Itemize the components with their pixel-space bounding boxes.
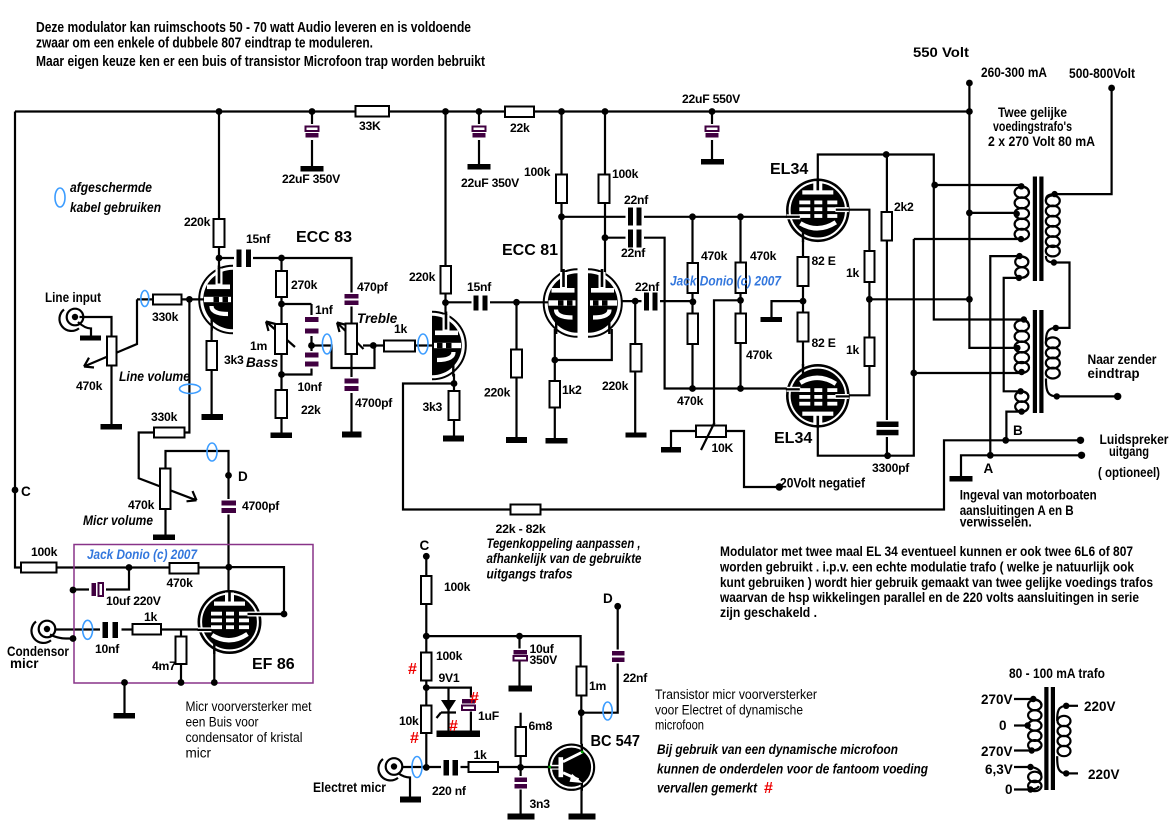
capacitor 470pf xyxy=(342,280,389,307)
tube EL34 top xyxy=(786,178,850,242)
wire 22uF cap 2 branch xyxy=(478,112,480,165)
capacitor 1nf xyxy=(303,303,334,336)
triode ECC83 half 1 xyxy=(199,266,233,334)
ground 4700pf treble xyxy=(342,432,362,438)
svg-text:Twee gelijke: Twee gelijke xyxy=(998,105,1067,120)
wire EL34 cathode 82E chain xyxy=(802,241,804,366)
ground 220k 22nf3 xyxy=(626,433,647,438)
svg-text:550 Volt: 550 Volt xyxy=(913,45,970,60)
svg-text:C: C xyxy=(420,538,430,553)
wire line volume wiper arm xyxy=(84,299,137,367)
wire condensor micr input to EF86 grid xyxy=(55,628,200,630)
ground zener and 1uF shared xyxy=(437,731,481,738)
junction dots group 6 EF86 xyxy=(70,472,288,686)
svg-text:Deze modulator kan ruimschoots: Deze modulator kan ruimschoots 50 - 70 w… xyxy=(36,20,471,36)
svg-text:D: D xyxy=(603,591,613,606)
svg-text:Electret micr: Electret micr xyxy=(313,780,387,795)
wire EL34 bottom anode run xyxy=(818,239,914,456)
ground 10uf 350V xyxy=(509,686,533,692)
svg-text:15nf: 15nf xyxy=(467,280,492,294)
ground 3k3 triode1 xyxy=(202,414,224,420)
ground 22uF 350V 1 xyxy=(301,166,324,172)
capacitor 15nf coupling 1 xyxy=(234,232,271,269)
svg-text:#: # xyxy=(449,718,458,735)
capacitor 22uF 350V 1 electrolytic xyxy=(282,124,341,186)
svg-text:BC 547: BC 547 xyxy=(591,733,641,750)
wire treble wiper xyxy=(337,323,373,350)
zener diode 9V1 xyxy=(437,671,460,718)
junction dots group 7 BC547 xyxy=(423,553,621,771)
wire 220k anode column triode 2 xyxy=(444,112,446,317)
svg-text:2 x 270 Volt 80 mA: 2 x 270 Volt 80 mA xyxy=(988,134,1095,149)
wire T1 primary top feed xyxy=(935,184,1022,186)
transformer T2 core xyxy=(1033,310,1037,413)
purple box EF86 stage xyxy=(74,545,313,684)
resistor 470k EF86 anode to grid2 xyxy=(170,563,199,574)
transformer T1 core xyxy=(1033,177,1037,282)
svg-text:2k2: 2k2 xyxy=(894,200,914,214)
resistor 470k upper left xyxy=(688,263,699,293)
ground 22uF 550V xyxy=(701,159,724,165)
svg-text:330k: 330k xyxy=(152,310,179,324)
shield ellipse 3 micr line xyxy=(180,384,201,393)
wire EF86 cathode to box rail xyxy=(213,648,215,683)
transformer T2 primary winding xyxy=(1015,320,1029,373)
svg-text:470k: 470k xyxy=(128,498,155,512)
wire junction down to 330k 2 xyxy=(139,299,197,501)
resistor 2k2 xyxy=(882,212,893,241)
svg-text:350V: 350V xyxy=(530,653,559,667)
svg-text:100k: 100k xyxy=(444,580,471,594)
resistor 220k anode triode2 xyxy=(441,266,452,294)
capacitor 10nf bass xyxy=(298,351,323,394)
svg-text:Naar zender: Naar zender xyxy=(1088,352,1158,367)
svg-text:20Volt negatief: 20Volt negatief xyxy=(780,476,865,491)
transformer T1 small winding xyxy=(1015,256,1028,278)
wire trafo3 primary lead 270V bottom xyxy=(1014,749,1032,751)
wire trafo3 primary lead 270V top xyxy=(1014,698,1033,700)
wire BC547 emitter ground xyxy=(580,790,582,814)
resistor 470k lower left xyxy=(688,314,699,345)
tube EF86 xyxy=(198,590,285,654)
wire 15nf 2 coupling to ECC81 grid xyxy=(446,301,517,303)
ground line volume pot xyxy=(101,424,123,430)
svg-text:22uF 350V: 22uF 350V xyxy=(282,172,341,186)
wire trafo3 secondary lead 220V bottom xyxy=(1066,772,1078,774)
svg-text:3300pf: 3300pf xyxy=(872,461,910,475)
svg-text:micr: micr xyxy=(186,746,212,761)
wire 4m7 column xyxy=(180,630,182,682)
resistor 330k grid 1 xyxy=(153,295,182,305)
resistor 220k anode triode1 xyxy=(214,219,225,247)
svg-text:220k: 220k xyxy=(409,270,436,284)
svg-text:470k: 470k xyxy=(677,394,704,408)
svg-text:vervallen gemerkt: vervallen gemerkt xyxy=(657,781,757,796)
svg-text:3k3: 3k3 xyxy=(423,400,443,414)
svg-text:ECC 83: ECC 83 xyxy=(296,229,352,246)
ground EF86 box xyxy=(114,713,136,719)
svg-text:uitgangs trafos: uitgangs trafos xyxy=(487,567,573,582)
resistor 330k to micr volume xyxy=(154,428,185,438)
svg-text:Bass: Bass xyxy=(246,355,279,370)
svg-text:afgeschermde: afgeschermde xyxy=(70,180,152,195)
shield ellipse 7 condensor micr xyxy=(83,620,93,639)
svg-text:22uF 350V: 22uF 350V xyxy=(461,176,520,190)
svg-text:voor Electret of dynamische: voor Electret of dynamische xyxy=(655,703,803,718)
wire bass pot top stem xyxy=(280,304,282,324)
junction dots group 4 output stage xyxy=(776,151,973,491)
wire trafo3 lead 0 bottom xyxy=(1014,788,1031,790)
wire EL34 top anode to transformer primaries xyxy=(818,155,1024,320)
svg-text:22k: 22k xyxy=(301,403,321,417)
svg-text:22nf: 22nf xyxy=(623,671,648,685)
svg-text:260-300 mA: 260-300 mA xyxy=(981,65,1047,80)
svg-text:9V1: 9V1 xyxy=(439,671,460,685)
wire micr volume pot top to D node and EF86 anode xyxy=(166,451,229,592)
wire 1k2 cathode resistor column xyxy=(554,360,556,438)
wire box ground stem xyxy=(123,683,125,713)
ground BC547 emitter xyxy=(569,814,596,820)
svg-text:Bij gebruik van een dynamische: Bij gebruik van een dynamische microfoon xyxy=(657,742,898,757)
wire EL34 screens and 1k resistors xyxy=(848,210,869,396)
ground 220k ECC81 grid xyxy=(506,437,527,443)
wire trafo3 primary lead 0 xyxy=(1014,724,1028,726)
wire triode2 cathode down xyxy=(453,384,455,392)
ground A terminal xyxy=(950,476,973,482)
svg-text:10nf: 10nf xyxy=(298,380,323,394)
wire 470k ladder right column xyxy=(739,217,741,389)
capacitor 22nf coupling top xyxy=(624,193,649,227)
shield ellipse 2 line input xyxy=(141,291,149,307)
svg-text:270V: 270V xyxy=(981,692,1013,707)
svg-text:1k: 1k xyxy=(394,322,408,336)
wire T1 secondary bottom to T2 secondary top xyxy=(1054,263,1070,328)
svg-text:Ingeval van motorboaten: Ingeval van motorboaten xyxy=(960,488,1097,503)
svg-text:270V: 270V xyxy=(981,744,1013,759)
capacitor 220 nf xyxy=(432,759,467,798)
node 260-300mA top xyxy=(966,80,973,87)
wire EF86 100k to 470k node xyxy=(129,566,229,568)
wire main 550V bus xyxy=(15,110,969,112)
wire line volume pot bottom xyxy=(110,366,112,425)
svg-text:#: # xyxy=(470,690,479,707)
svg-text:10K: 10K xyxy=(712,441,734,455)
transformer T1 secondary winding xyxy=(1046,194,1060,262)
wire trafo3 secondary lead 220V top xyxy=(1066,705,1078,707)
capacitor 3n3 xyxy=(513,776,551,811)
svg-text:micr: micr xyxy=(10,656,39,671)
wire 2k2 and 3300pf column xyxy=(886,155,888,456)
wire 220k grid leak column xyxy=(515,302,517,437)
resistor 1k EF86 grid stopper xyxy=(133,624,162,635)
wire bass pot wiper arrow xyxy=(266,322,295,348)
capacitor 22uF 550V electrolytic xyxy=(682,92,741,140)
svg-text:0: 0 xyxy=(1005,782,1013,797)
resistor 6m8 xyxy=(516,727,527,756)
svg-text:6,3V: 6,3V xyxy=(985,762,1013,777)
resistor 22k bass bottom xyxy=(276,390,288,418)
capacitor 10uf 220V electrolytic EF86 xyxy=(89,582,162,609)
svg-text:470pf: 470pf xyxy=(357,280,389,294)
resistor 4m7 xyxy=(176,637,187,665)
svg-text:#: # xyxy=(410,730,419,747)
svg-text:470k: 470k xyxy=(167,576,194,590)
connector line input xyxy=(59,309,83,331)
svg-text:Micr volume: Micr volume xyxy=(83,513,153,528)
svg-text:kunt gebruiken ) wordt hier ge: kunt gebruiken ) wordt hier gebruik gema… xyxy=(720,575,1153,590)
capacitor 4700pf micr volume xyxy=(219,499,280,515)
svg-text:eindtrap: eindtrap xyxy=(1088,366,1140,381)
svg-text:4m7: 4m7 xyxy=(152,659,176,673)
svg-text:C: C xyxy=(21,484,31,499)
wire micr volume pot bottom xyxy=(164,509,166,535)
svg-text:Tegenkoppeling aanpassen ,: Tegenkoppeling aanpassen , xyxy=(487,536,641,551)
svg-text:82 E: 82 E xyxy=(812,336,836,350)
svg-text:waarvan de hsp wikkelingen par: waarvan de hsp wikkelingen parallel en d… xyxy=(719,590,1139,605)
potentiometer treble xyxy=(346,324,358,355)
ground 3k3 triode2 xyxy=(443,436,464,442)
svg-text:330k: 330k xyxy=(151,410,178,424)
svg-text:22nf: 22nf xyxy=(624,193,649,207)
wire 22nf 1 run to EL34 top grid xyxy=(562,216,789,218)
wire line input shell to ground xyxy=(78,322,91,336)
svg-text:470k: 470k xyxy=(76,379,103,393)
resistor 220k below 22nf3 xyxy=(631,344,642,372)
wire zener 9V1 branch xyxy=(426,688,471,731)
svg-text:microfoon: microfoon xyxy=(655,718,704,733)
wire T2 primary bottom feed xyxy=(914,372,1022,374)
wire 220k anode column triode 1 xyxy=(218,112,220,272)
junction dots group 1 bus xyxy=(216,108,973,115)
svg-text:afhankelijk van de gebruikte: afhankelijk van de gebruikte xyxy=(487,551,642,566)
svg-text:Transistor micr voorversterker: Transistor micr voorversterker xyxy=(655,687,817,702)
junction dots group 8 trafo3 xyxy=(1024,696,1069,793)
svg-text:3n3: 3n3 xyxy=(530,797,551,811)
wire B+ 260-300mA column xyxy=(969,83,1017,348)
resistor 10k phantom xyxy=(421,706,432,734)
wire treble output through 1k to triode 2 grid xyxy=(373,344,433,346)
svg-text:Jack Donio (c) 2007: Jack Donio (c) 2007 xyxy=(87,546,198,562)
wire electret shell ground xyxy=(398,773,410,797)
wire 10K pot right to -20V terminal xyxy=(726,431,779,487)
svg-text:1k2: 1k2 xyxy=(562,383,582,397)
wire 10uf 350V branch xyxy=(518,636,520,685)
transformer T3 80-100mA core xyxy=(1044,687,1048,790)
svg-text:1k: 1k xyxy=(474,748,488,762)
wire 22nf 2 run to lower EL34 grid xyxy=(605,238,789,389)
resistor 3k3 triode2 cathode xyxy=(449,391,460,420)
wire 10uf 220V branch xyxy=(73,568,129,590)
wire 220k below 22nf3 column xyxy=(634,301,636,432)
wire line input center pin to pot xyxy=(80,317,112,337)
junction dots group 5 transformers xyxy=(987,183,1122,459)
svg-text:worden gebruikt . i.p.v. een e: worden gebruikt . i.p.v. een echte modul… xyxy=(719,560,1134,575)
svg-text:22k: 22k xyxy=(510,121,530,135)
svg-text:A: A xyxy=(984,461,994,476)
resistor 1m BC547 xyxy=(577,667,587,696)
wire trafo3 lead 6,3V xyxy=(1014,766,1031,768)
resistor 1k screen bottom xyxy=(865,338,875,367)
resistor 22k bus xyxy=(505,107,534,118)
svg-text:6m8: 6m8 xyxy=(529,719,553,733)
capacitor 4700pf treble xyxy=(342,377,393,410)
potentiometer 1m bass xyxy=(275,324,287,354)
svg-text:Line volume: Line volume xyxy=(119,369,190,384)
shield ellipse 8 electret xyxy=(412,757,422,778)
wire triode1 cathode 3k3 xyxy=(211,325,213,414)
resistor 100k below C node xyxy=(421,576,432,604)
wire T1 small winding top to A line xyxy=(990,256,1019,455)
svg-text:een Buis voor: een Buis voor xyxy=(186,715,259,730)
transformer T2 small winding xyxy=(1015,391,1028,412)
svg-text:verwisselen.: verwisselen. xyxy=(960,515,1032,530)
wire 22uF cap 1 branch xyxy=(311,112,313,167)
wire anode to 15nf coupling xyxy=(219,257,282,259)
wire T1 primary bottom feed xyxy=(914,238,1022,240)
svg-text:220 nf: 220 nf xyxy=(432,784,467,798)
ground micr volume pot xyxy=(153,535,175,541)
resistor 33K bus xyxy=(356,106,390,117)
svg-text:kabel gebruiken: kabel gebruiken xyxy=(70,200,161,215)
potentiometer 470k line volume xyxy=(107,337,117,366)
wire left rail down to 100k xyxy=(15,112,129,568)
resistor 1k treble output xyxy=(384,341,415,352)
transformer T3 primary winding xyxy=(1028,699,1041,751)
svg-text:0: 0 xyxy=(999,718,1007,733)
svg-text:10uf 220V: 10uf 220V xyxy=(106,594,162,608)
capacitor 1uF electrolytic xyxy=(460,698,499,724)
ground electret micr xyxy=(400,797,421,803)
wire 270k branch xyxy=(282,258,312,304)
potentiometer 10K bias xyxy=(696,426,726,438)
wire 10K pot left to ground xyxy=(671,431,696,447)
capacitor 22uF 350V 2 electrolytic xyxy=(461,124,520,190)
resistor 1k2 xyxy=(550,381,561,408)
shield ellipse 1 xyxy=(55,188,65,207)
wire 500-800V to T1 secondary top xyxy=(1055,88,1112,194)
resistor 100k phantom xyxy=(421,653,432,681)
svg-text:B: B xyxy=(1013,423,1023,438)
svg-text:220V: 220V xyxy=(1088,767,1120,782)
svg-text:270k: 270k xyxy=(291,278,318,292)
wire ECC81 grid entry xyxy=(517,301,549,303)
resistor 100k from C node xyxy=(21,563,57,573)
svg-text:22k - 82k: 22k - 82k xyxy=(496,522,546,536)
wire electret micr input line xyxy=(402,766,549,768)
capacitor 22nf D branch xyxy=(610,650,648,686)
svg-text:( optioneel): ( optioneel) xyxy=(1098,465,1160,480)
transformer T3 secondary winding xyxy=(1057,706,1070,774)
svg-text:470k: 470k xyxy=(746,348,773,362)
shield ellipse 6 triode2 grid xyxy=(418,334,428,354)
ground line input xyxy=(80,336,101,341)
svg-text:1m: 1m xyxy=(589,679,607,693)
wire 100k right anode column ECC81 xyxy=(604,112,606,274)
resistor 1k BC547 base xyxy=(469,762,499,772)
svg-text:10k: 10k xyxy=(399,714,419,728)
wire cathode ground stem xyxy=(772,301,804,317)
svg-text:1k: 1k xyxy=(846,266,860,280)
svg-text:22uF 550V: 22uF 550V xyxy=(682,92,741,106)
svg-text:EL34: EL34 xyxy=(774,430,812,447)
svg-text:Line input: Line input xyxy=(45,290,101,305)
svg-text:82 E: 82 E xyxy=(812,254,836,268)
svg-text:470k: 470k xyxy=(750,249,777,263)
connector condensor micr xyxy=(31,621,55,643)
wire 22k tone ground column xyxy=(280,375,282,433)
wire 470k ladder left column xyxy=(691,217,693,389)
transformer T1 primary winding xyxy=(1015,186,1029,240)
node 500-800V top xyxy=(1108,85,1115,92)
svg-text:470k: 470k xyxy=(701,249,728,263)
junction dots group 2 preamp xyxy=(186,213,608,386)
svg-text:15nf: 15nf xyxy=(246,232,271,246)
ground 22k bass xyxy=(271,433,293,439)
wire screens to B+ xyxy=(869,298,969,300)
ground 10K pot xyxy=(661,447,681,453)
svg-text:Micr voorversterker met: Micr voorversterker met xyxy=(186,699,312,714)
resistor 3k3 triode1 cathode xyxy=(207,341,218,370)
svg-text:ECC 81: ECC 81 xyxy=(502,242,558,259)
wire 470pf branch to treble pot xyxy=(282,258,352,324)
wire triode 2 cathode feedback loop 22k-82k to B terminal xyxy=(403,374,1081,510)
potentiometer 470k micr volume xyxy=(160,469,171,510)
svg-text:100k: 100k xyxy=(524,165,551,179)
wire treble pot bottom to 4700pf ground xyxy=(350,354,352,432)
svg-text:voedingstrafo's: voedingstrafo's xyxy=(993,119,1072,134)
ground EL34 cathodes xyxy=(761,317,783,322)
capacitor 3300pf xyxy=(872,420,910,475)
svg-text:220k: 220k xyxy=(484,386,511,400)
svg-text:220k: 220k xyxy=(184,215,211,229)
svg-text:condensator of kristal: condensator of kristal xyxy=(186,730,303,745)
capacitor 15nf coupling 2 xyxy=(467,280,492,311)
svg-text:220k: 220k xyxy=(602,379,629,393)
wire EF86 screen loop xyxy=(229,567,284,614)
wire D node 22nf column xyxy=(581,606,617,712)
wire 22uF cap 3 branch xyxy=(711,112,713,160)
transformer T3 6,3V winding xyxy=(1028,767,1041,791)
junction dots group 3 coupling ladder xyxy=(632,213,744,391)
tube EL34 bottom xyxy=(786,364,850,428)
resistor 1k screen top xyxy=(865,251,875,282)
wire 22nf 3 run from ECC81 right grid xyxy=(622,300,693,302)
transformer T2 secondary winding xyxy=(1046,328,1060,397)
wire 10K bias pot feed xyxy=(714,300,741,425)
svg-text:zijn geschakeld .: zijn geschakeld . xyxy=(720,605,817,620)
resistor 470k upper right xyxy=(736,263,747,294)
svg-text:1k: 1k xyxy=(144,610,158,624)
ground 3n3 xyxy=(508,814,535,820)
wire bias node to 1m collector feed xyxy=(426,636,580,667)
wire T2 secondary output naar zender xyxy=(1057,395,1118,397)
shield ellipse 5 bass out xyxy=(322,334,331,354)
svg-text:1k: 1k xyxy=(846,343,860,357)
wire A line with ground xyxy=(961,455,1082,476)
svg-text:Modulator met twee maal EL 34: Modulator met twee maal EL 34 eventueel … xyxy=(720,544,1133,559)
capacitor 22nf coupling 3 xyxy=(635,280,660,312)
wire condensor micr shell xyxy=(50,635,73,639)
ground 22uF 350V 2 xyxy=(468,164,491,170)
shield ellipse 9 BC out xyxy=(603,702,612,720)
svg-text:100k: 100k xyxy=(612,167,639,181)
svg-text:4700pf: 4700pf xyxy=(242,499,280,513)
resistor 22k - 82k feedback xyxy=(511,505,541,515)
svg-text:#: # xyxy=(408,661,417,678)
svg-text:10nf: 10nf xyxy=(95,642,120,656)
wire T2 small winding bottom to B line xyxy=(1006,412,1021,441)
wire 3n3 branch xyxy=(519,767,521,813)
